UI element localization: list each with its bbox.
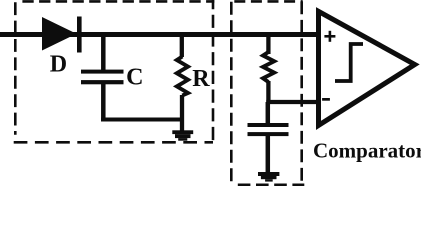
wire: capacitor C bottom stem (101, 84, 106, 122)
pin label - (inverting input) (322, 98, 330, 101)
pin label + (non-inverting input) (324, 31, 335, 42)
ground (filter) (258, 172, 279, 182)
resistor (filter) (263, 52, 274, 82)
wire: filter capacitor bottom stem (266, 136, 271, 173)
capacitor (filter) (248, 123, 289, 136)
ground (peak detector) (172, 130, 193, 140)
wire: filter capacitor top stem (266, 102, 271, 124)
wire: capacitor C top stem (101, 35, 106, 71)
svg-text:Comparator: Comparator (313, 138, 421, 162)
capacitor C (81, 70, 124, 85)
diode D (42, 17, 82, 53)
dashed box: peak detector stage (14, 0, 215, 143)
wire: main horizontal signal line (0, 32, 318, 37)
svg-text:C: C (126, 65, 143, 91)
svg-text:R: R (192, 66, 210, 92)
wire: node to comparator inverting input (266, 100, 318, 104)
op-amp comparator U1 (319, 11, 415, 125)
wire: filter resistor bottom stem (266, 81, 270, 104)
wire: resistor R bottom stem (180, 95, 184, 131)
hysteresis step symbol (335, 44, 363, 81)
dashed box: RC filter stage (231, 1, 304, 186)
wire: resistor R top stem (180, 35, 184, 58)
svg-text:D: D (50, 51, 67, 77)
wire: bottom connecting wire C to R (101, 118, 184, 122)
wire: filter resistor top stem (266, 35, 270, 55)
resistor R (177, 57, 188, 96)
